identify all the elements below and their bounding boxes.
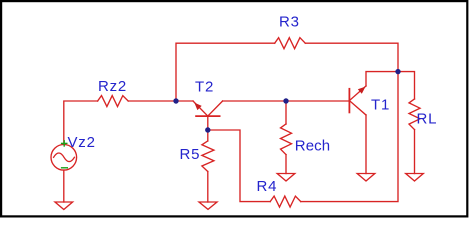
svg-text:T1: T1 [371, 97, 390, 114]
svg-text:T2: T2 [195, 79, 214, 96]
wire Vz2 bottom to ground [63, 170, 65, 202]
transistor T2 emitter diagonal [193, 101, 208, 116]
svg-text:Rz2: Rz2 [98, 78, 127, 95]
wire node C to Rech top [285, 101, 287, 124]
wire T2 collector to node C [223, 100, 286, 102]
transistor T1 emitter diagonal [349, 86, 366, 101]
wire node A to T2 emitter [176, 100, 193, 102]
transistor T1 emitter arrow [358, 87, 366, 94]
wire R5 bottom to ground [207, 172, 209, 203]
wire Vz2 top to Rz2 [64, 101, 98, 145]
svg-text:R5: R5 [180, 146, 201, 163]
ground RL [406, 174, 424, 182]
resistor Rz2 [98, 96, 129, 107]
wire node B to RL top [398, 72, 415, 99]
wire T1 emitter up to node B [366, 72, 398, 86]
source Vz2 circle [51, 145, 77, 171]
resistor R5 [202, 141, 214, 172]
ground R5 [199, 202, 217, 209]
wire Rz2 to node A [128, 100, 176, 102]
node B junction dot [395, 69, 400, 74]
resistor R3 [275, 38, 306, 49]
svg-text:RL: RL [417, 111, 438, 128]
resistor Rech [281, 124, 292, 155]
svg-text:R3: R3 [279, 14, 300, 31]
wire R4 left up to node D [208, 130, 270, 202]
wire RL bottom to ground [414, 130, 416, 174]
resistor RL [409, 99, 420, 130]
wire node C to T1 base [286, 100, 349, 102]
transistor T1 collector diagonal [349, 101, 366, 115]
source Vz2 sine wave [54, 153, 75, 162]
wire node B down to bottom rail [301, 72, 398, 202]
ground Rech [277, 174, 295, 182]
resistor R4 [270, 196, 301, 207]
node A junction dot [173, 98, 178, 103]
wire Rech bottom to ground [285, 155, 287, 174]
node D junction dot [205, 127, 210, 132]
transistor T2 bar [196, 115, 220, 117]
transistor T2 emitter arrow [194, 103, 201, 111]
plus mark Vz2 [61, 140, 68, 147]
wire node A up to R3 level [176, 43, 275, 101]
minus mark Vz2 [61, 167, 68, 169]
svg-text:Vz2: Vz2 [68, 134, 96, 151]
ground T1 [357, 174, 375, 182]
svg-text:R4: R4 [257, 178, 278, 195]
ground Vz2 [55, 202, 73, 210]
svg-text:Rech: Rech [295, 138, 330, 155]
wire node D to R5 top [207, 130, 209, 141]
transistor T2 collector diagonal [208, 101, 223, 116]
transistor T1 bar [348, 89, 350, 113]
transistor T2 base lead [207, 116, 209, 130]
wire T1 collector down to ground [365, 115, 367, 174]
node C junction dot [283, 98, 288, 103]
wire R3 right to node B [305, 43, 398, 71]
